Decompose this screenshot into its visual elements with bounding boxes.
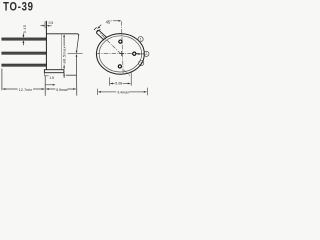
lead diameter dimension 0.45 (arrow above lead 1)	[22, 33, 24, 37]
svg-text:1: 1	[140, 38, 142, 42]
horizontal centerline	[96, 52, 144, 54]
svg-text:5.08: 5.08	[115, 82, 122, 86]
can body (side view)	[46, 21, 78, 70]
stray diagonal centerline segment (bottom right)	[124, 70, 129, 75]
pin 1 (top, 12h)	[119, 40, 122, 43]
seating line below flange left	[45, 70, 49, 76]
center cross	[119, 51, 124, 56]
seated height dimension 5.5max	[45, 88, 76, 90]
tab leader arrow	[97, 25, 101, 29]
small arrow row above 5.5max	[46, 84, 56, 86]
pin 3 (bottom, 6h)	[118, 65, 121, 68]
pin 2 (right, 3h)	[133, 52, 136, 55]
leader from 45 deg to centerline	[113, 20, 122, 22]
pin circle dimension 5.08	[109, 73, 131, 86]
svg-text:5.5max: 5.5max	[56, 88, 68, 92]
tab width ticks	[94, 27, 101, 32]
svg-text:45°: 45°	[106, 19, 113, 24]
can height dimension line (vertical, x=76.5)	[76, 35, 79, 75]
can diameter dimension line (vertical, x=64)	[63, 34, 65, 78]
svg-text:2: 2	[145, 52, 147, 56]
vertical centerline	[121, 21, 123, 74]
middle lead plane extension line	[68, 53, 83, 55]
flange (side view, bottom rim)	[44, 70, 64, 73]
svg-text:⌀8.5max: ⌀8.5max	[63, 46, 67, 63]
index tab	[97, 30, 107, 40]
can outline (inner cap circle)	[99, 36, 142, 72]
seating plane extension line (right)	[66, 74, 77, 76]
lead 1 (top)	[2, 38, 47, 40]
svg-text:12.7min: 12.7min	[19, 88, 33, 92]
flange diameter dimension 9.4max	[97, 88, 147, 96]
lead 3 (bottom)	[2, 64, 47, 66]
svg-text:9.4max: 9.4max	[117, 90, 129, 94]
tab centerline (diagonal)	[100, 33, 121, 54]
lead length dimension 12.7min	[2, 69, 45, 91]
pin label 2 (circled) with leader arrow	[136, 51, 149, 56]
extension down to 5.5max dimension	[76, 75, 78, 95]
svg-text:3: 3	[140, 62, 142, 66]
svg-text:0.45: 0.45	[23, 25, 27, 34]
svg-text:TO-39: TO-39	[3, 1, 34, 14]
svg-text:1.5: 1.5	[49, 76, 54, 80]
flange overhang dimension 0.5 at can top-left	[40, 21, 51, 28]
pin label 1 (circled)	[138, 37, 143, 42]
lead diameter dimension 0.45 (arrow below lead 1)	[22, 40, 24, 45]
pin label 3 (circled)	[139, 61, 144, 66]
can outline (outer flange circle)	[97, 34, 145, 75]
lead 2 (middle)	[2, 52, 47, 54]
svg-text:0.5: 0.5	[49, 21, 54, 25]
flange extension line (shared, x=45.2)	[44, 76, 46, 96]
